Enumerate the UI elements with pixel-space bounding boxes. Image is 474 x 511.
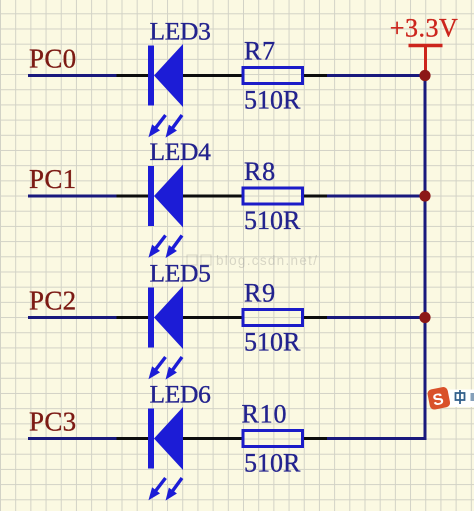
svg-text:R8: R8 — [244, 157, 276, 186]
svg-text:+3.3V: +3.3V — [390, 14, 458, 43]
svg-text:510R: 510R — [244, 449, 301, 478]
svg-text:510R: 510R — [244, 206, 301, 235]
svg-text:PC1: PC1 — [29, 164, 76, 194]
svg-text:R9: R9 — [244, 279, 276, 308]
svg-text:PC2: PC2 — [29, 286, 76, 316]
svg-text:LED3: LED3 — [150, 16, 211, 45]
svg-text:blog.csdn.net/: blog.csdn.net/ — [216, 253, 318, 268]
svg-text:PC3: PC3 — [29, 407, 76, 437]
svg-text:R7: R7 — [244, 37, 276, 66]
svg-text:510R: 510R — [244, 328, 301, 357]
svg-text:PC0: PC0 — [29, 44, 76, 74]
svg-text:LED4: LED4 — [150, 137, 212, 166]
svg-text:R10: R10 — [242, 400, 288, 429]
svg-text:510R: 510R — [244, 86, 301, 115]
svg-text:LED6: LED6 — [150, 379, 211, 408]
